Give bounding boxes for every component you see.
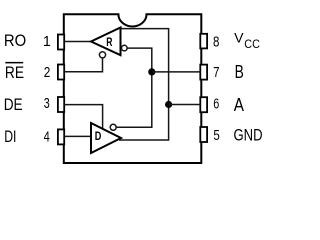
wire RO pin1 to receiver output (64, 41, 92, 43)
svg-text:3: 3 (44, 96, 50, 112)
enable bubble on receiver (RE) (99, 52, 105, 58)
pin 3 box (58, 97, 64, 112)
driver U1b D (triangle) (91, 123, 121, 153)
svg-text:2: 2 (44, 65, 51, 81)
pin 1 box (58, 35, 64, 50)
wire receiver A-input (top) to node A vertical (119, 29, 169, 140)
pin 4 box (58, 129, 64, 144)
node B junction dot (148, 68, 155, 75)
svg-text:DI: DI (4, 128, 16, 146)
svg-text:A: A (234, 95, 244, 115)
svg-text:D: D (95, 130, 102, 143)
node A junction dot (165, 101, 172, 108)
svg-text:RE: RE (5, 64, 24, 82)
pin 8 box (200, 34, 207, 49)
IC body U1 (DIP-8 outline with notch) (64, 14, 202, 163)
pin 5 box (200, 127, 207, 142)
svg-text:5: 5 (213, 128, 219, 144)
pin 2 box (58, 65, 64, 80)
pin 7 box (200, 65, 207, 80)
wire receiver B-input to node B (116, 48, 152, 127)
svg-text:DE: DE (4, 96, 23, 114)
wire RE pin2 up to receiver enable bubble (64, 58, 102, 72)
receiver U1a R (triangle) (91, 28, 121, 56)
svg-text:7: 7 (213, 65, 219, 81)
svg-text:8: 8 (213, 34, 219, 50)
svg-text:RO: RO (4, 32, 26, 50)
wire node A to pin 6 (169, 104, 201, 106)
wire node B to pin 7 (152, 71, 201, 73)
inverting output bubble on driver (to node B) (110, 124, 116, 130)
svg-text:B: B (235, 62, 244, 82)
svg-text:V: V (234, 30, 244, 46)
svg-text:1: 1 (43, 34, 51, 50)
inverting input bubble on receiver (B input) (122, 45, 128, 51)
pin 6 box (200, 97, 207, 112)
svg-text:GND: GND (234, 126, 263, 145)
wire DI pin4 to driver input (64, 135, 92, 137)
svg-text:CC: CC (244, 37, 260, 51)
svg-text:R: R (106, 36, 113, 49)
svg-text:6: 6 (213, 96, 219, 112)
svg-text:4: 4 (44, 129, 50, 145)
wire DE pin3 to driver enable (64, 105, 102, 130)
